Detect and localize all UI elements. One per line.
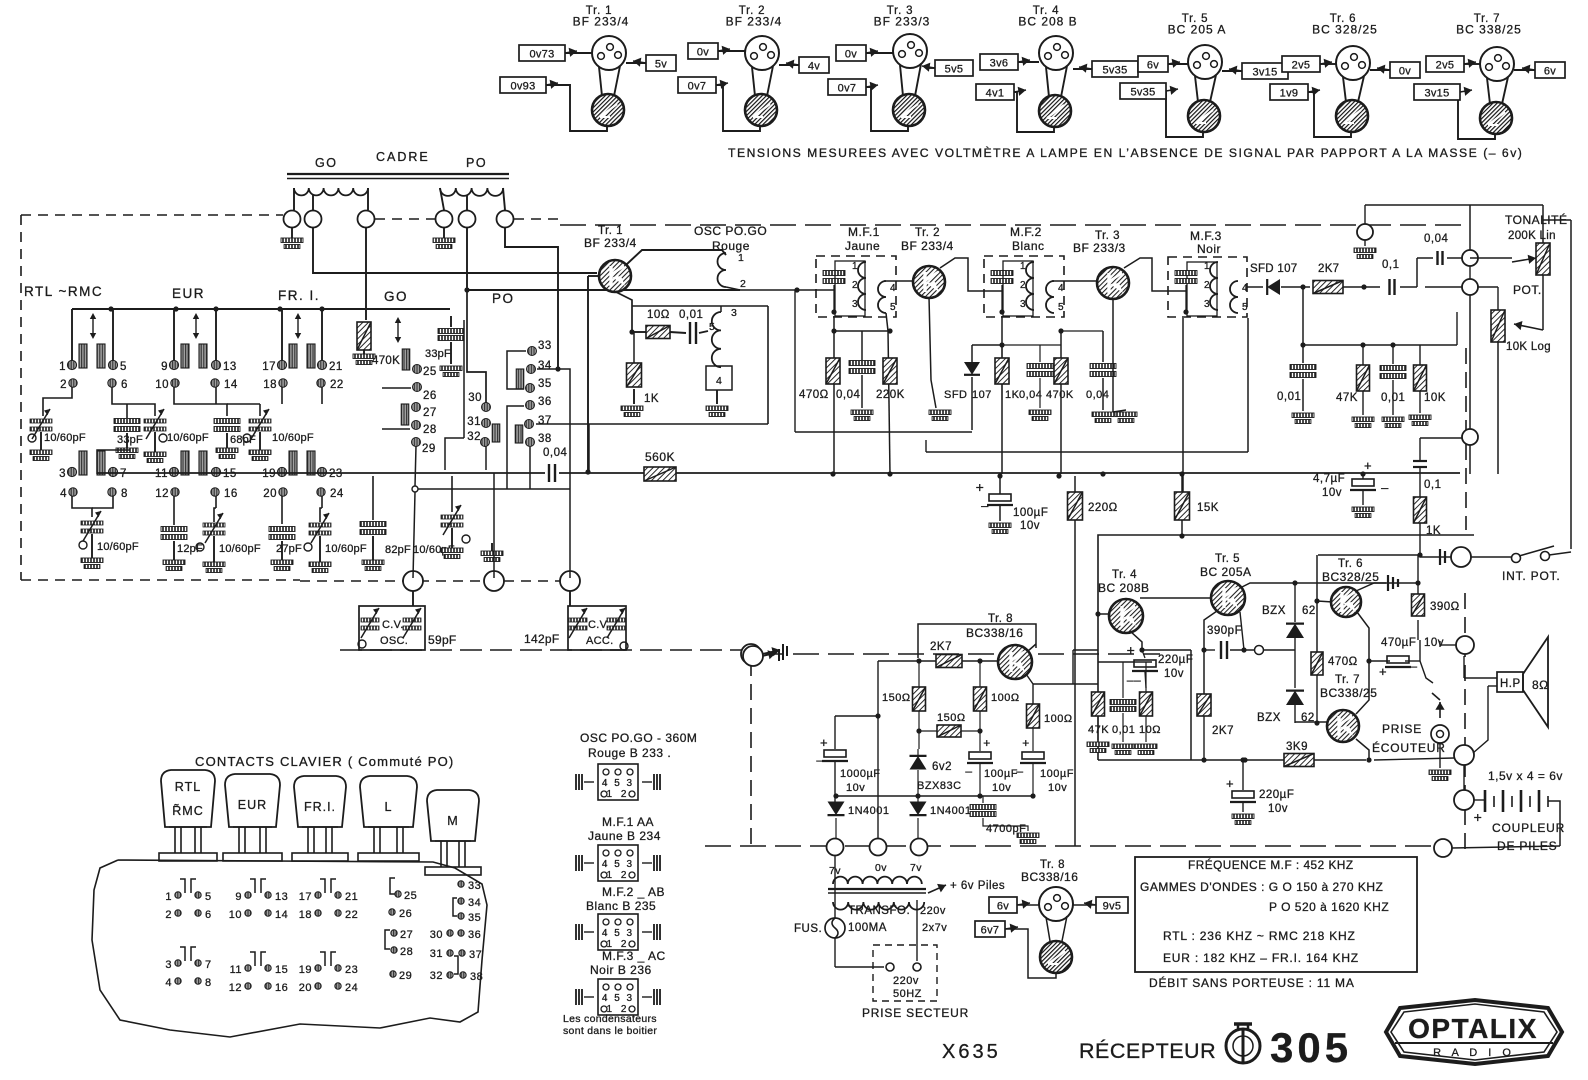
optalix text [1408, 1013, 1538, 1044]
svg-text:22: 22 [330, 379, 344, 391]
label RECEPTEUR [1079, 1038, 1216, 1063]
contact 29 dot [412, 438, 436, 456]
key L [358, 776, 419, 861]
info gammes [1140, 880, 1383, 894]
svg-text:BZX83C: BZX83C [917, 780, 962, 792]
wire Tr.2 to voltmeter right [767, 66, 773, 96]
wire Tr.1 base [565, 52, 592, 54]
switch bar 34-35 [516, 369, 524, 389]
svg-text:305: 305 [1270, 1024, 1352, 1071]
svg-text:220v: 220v [893, 975, 919, 987]
wire mf1 left bus [740, 287, 800, 292]
label EUR [172, 286, 205, 301]
updown arrow GO col [395, 317, 401, 343]
resistor 3K9 [1284, 741, 1366, 767]
svg-text:BF 233/4: BF 233/4 [726, 15, 783, 29]
wire mf2 node [1002, 331, 1103, 345]
svg-text:5v: 5v [655, 59, 667, 71]
contact 26 dot [413, 383, 437, 403]
pot volume 10K [1478, 287, 1543, 474]
svg-text:5v5: 5v5 [945, 64, 964, 76]
svg-text:17: 17 [299, 891, 312, 903]
wire cadre PO left tap [440, 188, 444, 210]
svg-text:–: – [1410, 659, 1417, 673]
svg-text:10: 10 [155, 379, 169, 391]
svg-text:M.F.3: M.F.3 [1190, 229, 1222, 243]
wire tr3 emitter down [1113, 299, 1137, 423]
svg-text:3v15: 3v15 [1252, 67, 1277, 79]
voltage box 3v15 at Tr.7 [1414, 84, 1472, 100]
wire tr7 collector [1356, 658, 1372, 714]
svg-text:2: 2 [60, 379, 67, 391]
voltage box 4v1 at Tr.4 [976, 84, 1026, 100]
contact group 9-13/10-14 [229, 879, 289, 921]
optalix line [1395, 1042, 1553, 1044]
voltmeter for Tr.5 [1188, 100, 1220, 132]
svg-text:EUR : 182 KHZ – FR.I.: EUR : 182 KHZ – FR.I. 164 KHZ [1163, 951, 1359, 965]
svg-text:CADRE: CADRE [376, 150, 430, 164]
svg-text:4: 4 [60, 488, 67, 500]
svg-text:1: 1 [165, 891, 172, 903]
svg-text:10/60pF: 10/60pF [97, 541, 139, 553]
svg-text:FR. I.: FR. I. [278, 288, 320, 303]
prise ecouteur jack [1372, 702, 1451, 781]
svg-text:37: 37 [469, 949, 482, 961]
cv acc var cap left [569, 608, 587, 638]
svg-text:5: 5 [890, 302, 896, 313]
wire Tr.7 emitter loop [1458, 92, 1495, 139]
wire far right vertical [1543, 220, 1571, 549]
MF2 transformer [984, 256, 1064, 317]
wire hp return [1463, 765, 1465, 790]
svg-text:18: 18 [299, 909, 312, 921]
wire Tr.6 emitter loop [1308, 92, 1351, 137]
transistor Tr.6 [1331, 587, 1361, 617]
svg-text:16: 16 [224, 488, 238, 500]
svg-text:82pF: 82pF [385, 544, 411, 556]
arrow cv-4 pickup [762, 644, 787, 658]
contact 25 dot [413, 365, 437, 379]
contact 31 [430, 948, 458, 974]
transistor Tr.2 case top-view [745, 36, 779, 70]
svg-text:23: 23 [329, 468, 343, 480]
wire y452 long [926, 440, 1248, 452]
cap 0,04 mf3 [1086, 331, 1116, 423]
wire cv3 down [569, 591, 571, 606]
resistor 47K af [1336, 365, 1374, 428]
contact group 1-5/2-6 [165, 879, 211, 921]
wire tr6-7 junction [1369, 660, 1390, 662]
voltage box 0v at Tr.2 [688, 43, 730, 59]
contact 29 [390, 970, 412, 982]
svg-text:2: 2 [852, 280, 858, 291]
dashed vertical right [1465, 348, 1466, 856]
svg-text:9v5: 9v5 [1103, 901, 1122, 913]
label DE PILES [1497, 839, 1557, 853]
svg-text:32: 32 [467, 431, 481, 443]
svg-text:6v: 6v [1147, 60, 1159, 72]
wire Tr.1 collector [626, 62, 646, 64]
svg-text:100MA: 100MA [848, 922, 887, 934]
svg-text:BC 328/25: BC 328/25 [1312, 23, 1378, 37]
info frequence [1188, 858, 1354, 872]
wire cadre GO right tap [367, 188, 369, 210]
transistor Tr.3 case top-view [893, 34, 927, 68]
svg-text:107: 107 [972, 389, 992, 401]
svg-text:26: 26 [423, 390, 437, 402]
wire mf2 prim down [999, 316, 1004, 474]
contact 32 dot [467, 431, 489, 447]
wire Tr.6 collector [1370, 69, 1390, 71]
resistor 1K osc [621, 332, 659, 417]
contact 33 [458, 880, 481, 892]
dashed boundary left edge [20, 215, 22, 580]
svg-text:Tr. 4: Tr. 4 [1112, 569, 1137, 581]
resistor 1K out [1414, 497, 1442, 537]
wire cadre GO mid tap [312, 195, 314, 210]
svg-text:36: 36 [468, 929, 481, 941]
svg-text:L: L [385, 800, 393, 814]
voltmeter for Tr.4 [1039, 95, 1071, 127]
wire Tr.4 collector [1073, 68, 1092, 70]
wire top feedback [1365, 205, 1543, 250]
svg-text:100µF: 100µF [1040, 768, 1074, 780]
chassis plate blob [92, 860, 487, 1037]
wire det to tone2 [1425, 286, 1462, 288]
switch group FRI upper [262, 309, 344, 391]
contact group 17-21/18-22 [299, 879, 359, 921]
label 142pF [524, 632, 560, 646]
svg-text:M.F.3 _ AC: M.F.3 _ AC [602, 949, 666, 963]
transformer ring 2 [870, 839, 887, 856]
cap 1000uF [816, 716, 880, 803]
svg-text:–: – [1016, 764, 1023, 778]
junction dot bus-2 [830, 471, 835, 476]
cap 33pF GO col [425, 316, 464, 377]
svg-text:10v: 10v [1020, 520, 1040, 532]
caption tensions mesurees [728, 145, 1523, 160]
wire 32 down [485, 446, 487, 470]
cap 4,7uF [1313, 458, 1389, 518]
voltage box 5v at Tr.1 [633, 55, 676, 71]
label 59pF [428, 633, 457, 647]
contact group 3-7/4-8 [165, 947, 211, 989]
wire tr1 emitter [616, 292, 635, 335]
switch group RTL lower [59, 451, 128, 500]
wire Tr.7 to voltmeter right [1502, 77, 1508, 104]
wire tr1 base left [585, 276, 599, 475]
svg-text:Tr. 7: Tr. 7 [1335, 674, 1360, 686]
svg-text:+ 6v Piles: + 6v Piles [950, 880, 1005, 892]
svg-text:BC338/16: BC338/16 [966, 626, 1023, 640]
svg-text:OPTALIX: OPTALIX [1408, 1013, 1538, 1044]
svg-text:10v: 10v [1268, 803, 1288, 815]
svg-text:BZX: BZX [1262, 605, 1286, 617]
svg-text:2: 2 [165, 909, 172, 921]
svg-text:34: 34 [468, 897, 481, 909]
wire 470uF to jack [1420, 641, 1440, 703]
wire af node [1300, 312, 1457, 365]
svg-text:Tr. 5: Tr. 5 [1215, 553, 1240, 565]
svg-text:1N4001: 1N4001 [930, 805, 972, 817]
svg-text:Jaune: Jaune [845, 239, 880, 253]
svg-text:560K: 560K [645, 450, 675, 464]
label 50HZ [893, 988, 922, 1000]
svg-text:28: 28 [423, 424, 437, 436]
svg-text:21: 21 [329, 361, 343, 373]
svg-text:SFD: SFD [944, 389, 968, 401]
svg-text:TRANSFO.: TRANSFO. [848, 905, 910, 917]
voltage box 2v5 at Tr.6 [1282, 56, 1332, 72]
svg-text:+: + [1364, 458, 1372, 473]
svg-text:ACC.: ACC. [586, 635, 613, 647]
svg-text:200K Lin: 200K Lin [1508, 230, 1556, 242]
wire 28 left stub [382, 428, 410, 430]
cap 0,01 osc [679, 309, 708, 344]
svg-text:6v7: 6v7 [981, 925, 1000, 937]
wire Tr.7 collector [1514, 69, 1535, 71]
terminal circle PO-3 [497, 211, 514, 228]
svg-text:5: 5 [709, 321, 715, 333]
svg-text:0,04: 0,04 [543, 447, 567, 459]
pinout MF3 label [590, 949, 666, 977]
svg-text:+: + [1379, 664, 1387, 679]
cap fixed 12pF EUR low [161, 527, 203, 571]
cap var 10/60pF RTL-EUR [144, 409, 209, 463]
wire 26 left stub [382, 387, 411, 389]
junction ring 29 [412, 486, 418, 492]
svg-text:470Ω: 470Ω [1328, 656, 1358, 668]
svg-text:GO: GO [315, 156, 337, 170]
resistor 100R drv2 [1026, 674, 1073, 751]
svg-text:2K7: 2K7 [1212, 725, 1234, 737]
svg-text:5: 5 [205, 891, 212, 903]
fuse FUS [794, 918, 845, 938]
transistor Tr.1 case top-view [592, 36, 626, 70]
wire Tr.6 to voltmeter left [1343, 77, 1346, 102]
cv osc box [359, 606, 425, 650]
svg-text:C.V.: C.V. [588, 619, 610, 631]
wire cadre GO left tap [293, 188, 295, 210]
svg-text:BF 233/4: BF 233/4 [584, 236, 637, 250]
svg-text:30: 30 [468, 392, 482, 404]
svg-text:2K7: 2K7 [1318, 263, 1339, 275]
wire mf3 down [1247, 318, 1249, 452]
cap 0,04 fb [1417, 233, 1462, 287]
wire tr6 collector [1357, 612, 1369, 661]
Tr.7 label [1320, 674, 1377, 700]
svg-text:6: 6 [205, 909, 212, 921]
junction ring tone1 [1462, 250, 1478, 266]
diode zener 6v2 [910, 749, 962, 796]
wire battery right [1548, 801, 1560, 846]
wire tr3 collector right [1124, 258, 1186, 291]
contact 35 dot [526, 378, 552, 393]
voltage box 1v9 at Tr.6 [1270, 84, 1320, 100]
label FR.I. [278, 288, 320, 303]
svg-text:470Ω: 470Ω [799, 389, 829, 401]
svg-text:–: – [981, 498, 989, 513]
svg-text:100Ω: 100Ω [991, 692, 1020, 704]
resistor 2K7 tr5 [1197, 694, 1234, 760]
svg-text:–: – [965, 764, 972, 778]
svg-text:sont dans le boitier: sont dans le boitier [563, 1025, 657, 1037]
svg-text:1K: 1K [644, 393, 659, 405]
pinout OSC label [580, 731, 697, 760]
cap 0,04 left [543, 447, 567, 482]
svg-text:220v: 220v [920, 905, 946, 917]
svg-text:1 2: 1 2 [607, 870, 630, 881]
junction dot bus-3 [887, 471, 892, 476]
wire Tr.5 to voltmeter left [1195, 76, 1198, 102]
cap 0,01 af [1380, 366, 1406, 428]
svg-text:0,04: 0,04 [1086, 389, 1109, 401]
svg-text:4: 4 [716, 375, 722, 387]
svg-text:1: 1 [852, 261, 858, 272]
switch bar 25 [402, 349, 410, 370]
svg-text:EUR: EUR [238, 798, 267, 812]
wire Tr.1 to voltmeter left [599, 67, 602, 96]
wire 2k7 left leg [835, 661, 881, 838]
svg-text:M.F.2 _ AB: M.F.2 _ AB [602, 885, 665, 899]
wire 37 right [536, 424, 589, 471]
switch bar 31-32 [492, 424, 500, 442]
oscillator coil primary [718, 252, 747, 290]
wire plus6v piles [928, 880, 1005, 893]
svg-text:3K9: 3K9 [1286, 741, 1308, 753]
wire Tr.3 collector [927, 67, 935, 69]
svg-text:0v: 0v [875, 862, 887, 874]
cap 220uF tr4 [1127, 642, 1194, 687]
svg-text:Les condensateurs: Les condensateurs [563, 1013, 657, 1025]
junction ring hp2 [1454, 745, 1474, 765]
transistor Tr.7 case top-view [1480, 47, 1514, 81]
svg-text:4 5 3: 4 5 3 [602, 993, 634, 1004]
svg-text:24: 24 [345, 982, 358, 994]
contact 37 [459, 949, 482, 961]
svg-text:13: 13 [275, 891, 288, 903]
svg-text:5: 5 [1242, 302, 1248, 313]
resistor 1K mf2 [995, 345, 1020, 401]
label 200K Lin [1508, 230, 1556, 242]
cap 0,04 mf1 [836, 331, 875, 421]
contact 36 [458, 929, 481, 941]
logo emblem [1226, 1024, 1260, 1063]
resistor 47K tr4 [1087, 692, 1109, 753]
label 0v [875, 862, 887, 874]
junction ring hp1 [1420, 636, 1474, 700]
svg-text:33: 33 [468, 880, 481, 892]
svg-text:4v: 4v [808, 61, 820, 73]
junction ring batt [1454, 790, 1485, 810]
svg-text:10/60pF: 10/60pF [272, 432, 314, 444]
svg-text:5: 5 [120, 361, 127, 373]
wire mf1 sec down [886, 313, 890, 474]
svg-text:0,04: 0,04 [836, 389, 860, 401]
GO coil label [315, 156, 337, 170]
svg-text:BC 208 B: BC 208 B [1018, 15, 1077, 29]
svg-text:0,01: 0,01 [1277, 391, 1301, 403]
svg-text:15: 15 [223, 468, 237, 480]
svg-text:7: 7 [120, 468, 127, 480]
Tr.6 label [1322, 558, 1379, 584]
svg-text:142pF: 142pF [524, 632, 560, 646]
wire 38 down [529, 447, 531, 489]
diode BZX62 upper [1262, 583, 1316, 682]
svg-text:+: + [1127, 642, 1136, 658]
pinout MF2 box [576, 914, 660, 950]
resistor 470R mf1 [799, 358, 840, 401]
cap 0,04 mf2 [1019, 345, 1053, 421]
svg-text:10Ω: 10Ω [647, 309, 670, 321]
prise secteur box [873, 945, 937, 1001]
terminal circle PO-2 [459, 211, 476, 228]
switch group EUR upper [155, 309, 238, 391]
svg-text:220µF: 220µF [1158, 654, 1193, 666]
wire Tr.5 to voltmeter right [1210, 75, 1216, 102]
svg-text:47K: 47K [1336, 392, 1358, 404]
svg-text:3v6: 3v6 [990, 58, 1009, 70]
svg-text:27: 27 [423, 407, 437, 419]
main bus wire y474 [97, 472, 1460, 474]
label POT. [1513, 283, 1542, 297]
junction ring 390 [1255, 646, 1264, 655]
transistor Tr.1 main [599, 260, 631, 292]
svg-text:Jaune B 234: Jaune B 234 [588, 829, 661, 843]
svg-text:PRISE SECTEUR: PRISE SECTEUR [862, 1006, 969, 1020]
svg-text:3v15: 3v15 [1424, 88, 1449, 100]
svg-text:7: 7 [205, 959, 212, 971]
svg-text:2v5: 2v5 [1436, 60, 1455, 72]
svg-text:1000µF: 1000µF [840, 768, 881, 780]
svg-text:1v9: 1v9 [1280, 88, 1299, 100]
cap var 10/60pF EUR low [196, 513, 261, 573]
svg-text:OSC PO.GO - 360M: OSC PO.GO - 360M [580, 731, 697, 745]
contact 38 dot [526, 433, 552, 447]
MF2 label [1010, 225, 1045, 253]
svg-text:28: 28 [400, 946, 413, 958]
svg-text:470K: 470K [1046, 389, 1074, 401]
transistor Tr.1 label [573, 5, 630, 29]
terminal circle GO-1 [284, 211, 301, 228]
svg-text:4: 4 [1242, 283, 1248, 294]
wire PO-2 down right [464, 228, 740, 403]
wire 100r2 bottom [1032, 763, 1034, 796]
svg-text:33pF: 33pF [425, 348, 451, 360]
svg-text:BC 338/25: BC 338/25 [1456, 23, 1522, 37]
voltage box 6v7 tr8 [975, 921, 1018, 937]
wire 47k cluster top [1098, 661, 1152, 663]
svg-text:9: 9 [235, 891, 242, 903]
pinout OSC box [576, 764, 660, 800]
wire tr8 collector [1028, 644, 1098, 684]
svg-text:BF 233/3: BF 233/3 [1073, 241, 1126, 255]
svg-text:8Ω: 8Ω [1532, 678, 1549, 692]
svg-text:62: 62 [1302, 605, 1316, 617]
label 10K Log [1506, 341, 1551, 353]
svg-text:COUPLEUR: COUPLEUR [1492, 821, 1565, 835]
dashed boundary bottom [21, 579, 300, 581]
Tr.3 main label [1073, 230, 1126, 255]
svg-text:OSC PO.GO: OSC PO.GO [694, 224, 767, 238]
svg-text:4 5 3: 4 5 3 [602, 778, 634, 789]
svg-text:M: M [447, 814, 458, 828]
svg-text:C.V.: C.V. [382, 619, 404, 631]
audio box outline [1098, 535, 1474, 760]
label 100MA [848, 922, 887, 934]
svg-text:1K: 1K [1005, 389, 1020, 401]
svg-text:10: 10 [229, 909, 242, 921]
